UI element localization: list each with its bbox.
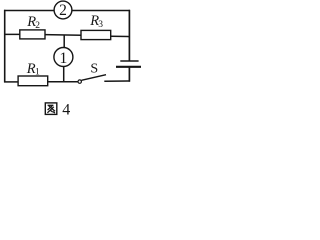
wire: meter 1 to bottom wire [63,67,65,83]
wire: R3 to right vertical [111,35,130,37]
wire: left vertical [4,10,6,83]
switch S lever (open) [81,75,106,81]
wire: R2 to R3 through node [45,34,82,37]
battery positive plate (long) [120,60,138,62]
svg-text:2: 2 [59,2,67,19]
svg-text:2: 2 [35,21,40,31]
resistor R2 [20,30,45,39]
meter U2 (circle labeled 2) [54,1,72,19]
wire: R1 to switch pivot [48,81,78,83]
resistor R3 [81,30,111,39]
resistor R1 [18,76,48,86]
switch S pivot [78,80,81,83]
wire: top horizontal left segment [4,10,54,12]
meter U1 (circle labeled 1) [54,48,73,68]
node junction at centre column [63,35,65,48]
wire: top horizontal right segment [72,10,130,12]
wire: middle row, left vertical to R2 [4,33,20,35]
svg-text:1: 1 [35,67,40,77]
battery negative plate (short thick) [116,66,141,68]
wire: right vertical upper (top to battery) [128,10,130,61]
wire: bottom left vertical to R1 [4,81,18,83]
caption glyph 图 (drawn) [45,103,57,115]
svg-text:1: 1 [59,50,67,67]
svg-text:3: 3 [98,20,103,30]
wire: switch to right vertical [104,80,130,82]
svg-text:S: S [90,62,98,77]
svg-text:4: 4 [62,102,70,119]
wire: right vertical lower (battery to bottom) [128,67,130,82]
